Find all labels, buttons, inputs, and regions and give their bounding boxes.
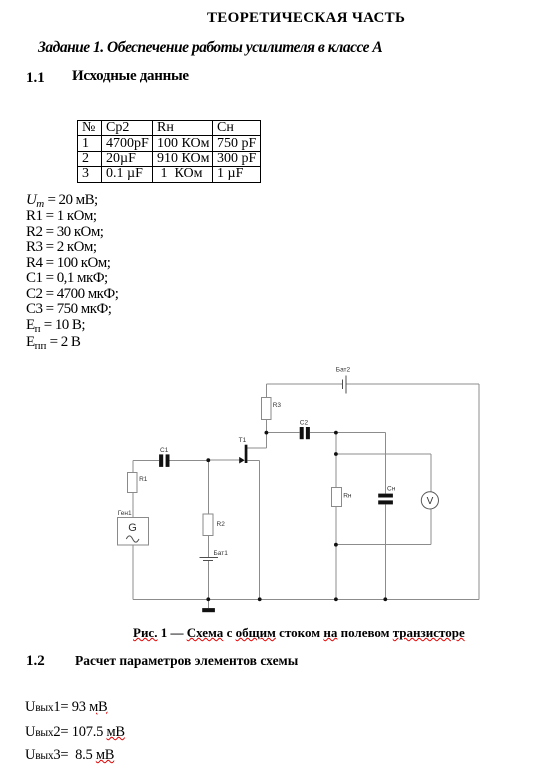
transistor T1 channel bar xyxy=(245,445,248,463)
svg-text:Ген1: Ген1 xyxy=(118,510,132,517)
svg-text:Бат1: Бат1 xyxy=(214,550,229,557)
transistor T1 gate arrow xyxy=(239,457,245,464)
wire top rail left of Бат2 xyxy=(266,383,342,385)
wire R2 branch upper xyxy=(207,460,209,514)
junction dot drain node xyxy=(265,431,269,435)
title xyxy=(207,10,405,27)
wire R1 to generator xyxy=(132,493,134,518)
voltmeter V circle xyxy=(421,492,438,509)
svg-text:G: G xyxy=(128,522,137,534)
battery Бат1 long plate xyxy=(199,556,218,558)
junction dot C2 output node xyxy=(334,431,338,435)
junction dot Rн bottom xyxy=(334,543,338,547)
svg-text:T1: T1 xyxy=(239,437,247,444)
schematic figure xyxy=(0,350,552,620)
junction dot Rн-rail xyxy=(334,597,338,601)
svg-text:Сн: Сн xyxy=(387,486,396,493)
wire right side vertical xyxy=(478,384,480,599)
junction dot voltmeter tap xyxy=(334,452,338,456)
resistor Rн xyxy=(331,488,341,507)
resistor R1 xyxy=(127,472,137,492)
wire ground stub xyxy=(207,599,209,608)
wire source horizontal xyxy=(247,459,259,461)
wire Сн branch upper xyxy=(384,433,386,494)
wire Сн branch lower xyxy=(384,504,386,599)
wire C2 to node B xyxy=(310,432,336,434)
wire C1 left xyxy=(133,459,159,461)
resistor R2 xyxy=(203,514,213,536)
wire left branch to R1 xyxy=(132,460,134,472)
generator Ген1 box xyxy=(117,518,148,545)
junction dot Сн-rail xyxy=(383,597,387,601)
wire generator to bottom rail xyxy=(132,545,134,600)
wire node B to Сн branch xyxy=(336,432,385,434)
parameter list xyxy=(26,193,118,352)
wire gate from C1 junction xyxy=(208,459,240,461)
caption xyxy=(133,626,465,641)
battery Бат2 short plate xyxy=(342,380,344,389)
data table xyxy=(77,120,261,183)
wire R3 bottom to drain node xyxy=(265,420,267,449)
svg-text:V: V xyxy=(427,496,434,507)
output lines xyxy=(25,699,107,716)
junction dot source-rail xyxy=(258,597,262,601)
svg-text:C1: C1 xyxy=(160,447,169,454)
capacitor C2 plates xyxy=(300,427,304,439)
wire voltmeter top horizontal xyxy=(336,453,431,455)
svg-text:C2: C2 xyxy=(300,419,309,426)
generator sine symbol xyxy=(126,536,139,542)
heading 1.2 xyxy=(26,653,45,670)
junction dot ground node xyxy=(206,597,210,601)
wire Rн branch upper xyxy=(335,433,337,488)
svg-text:Бат2: Бат2 xyxy=(336,367,351,374)
wire Rн branch lower xyxy=(335,507,337,600)
wire Бат1 to bottom rail xyxy=(207,560,209,599)
svg-text:R3: R3 xyxy=(273,402,282,409)
svg-text:R1: R1 xyxy=(139,476,148,483)
wire bottom rail xyxy=(133,598,479,600)
heading 1.1 xyxy=(26,70,45,87)
wire node to C2 xyxy=(266,432,299,434)
wire voltmeter lower vertical xyxy=(430,509,432,545)
svg-text:R2: R2 xyxy=(217,521,226,528)
wire drain horizontal xyxy=(247,447,267,449)
wire R3 branch top xyxy=(265,384,267,397)
wire top rail right of Бат2 xyxy=(346,383,479,385)
battery Бат2 long plate xyxy=(345,375,347,393)
wire voltmeter upper vertical xyxy=(430,454,432,492)
wire source vertical xyxy=(259,460,261,599)
wire C1 to gate junction xyxy=(170,459,209,461)
wire voltmeter bottom horizontal xyxy=(336,544,431,546)
battery Бат1 short plate xyxy=(203,559,213,561)
ground symbol bar xyxy=(202,608,215,612)
svg-text:Rн: Rн xyxy=(343,493,352,500)
resistor R3 xyxy=(262,397,272,419)
subtitle xyxy=(38,39,382,57)
wire R2 to Бат1 xyxy=(207,536,209,558)
capacitor C1 plates xyxy=(159,454,163,467)
capacitor Сн plates xyxy=(378,494,393,498)
junction dot gate node xyxy=(206,458,210,462)
